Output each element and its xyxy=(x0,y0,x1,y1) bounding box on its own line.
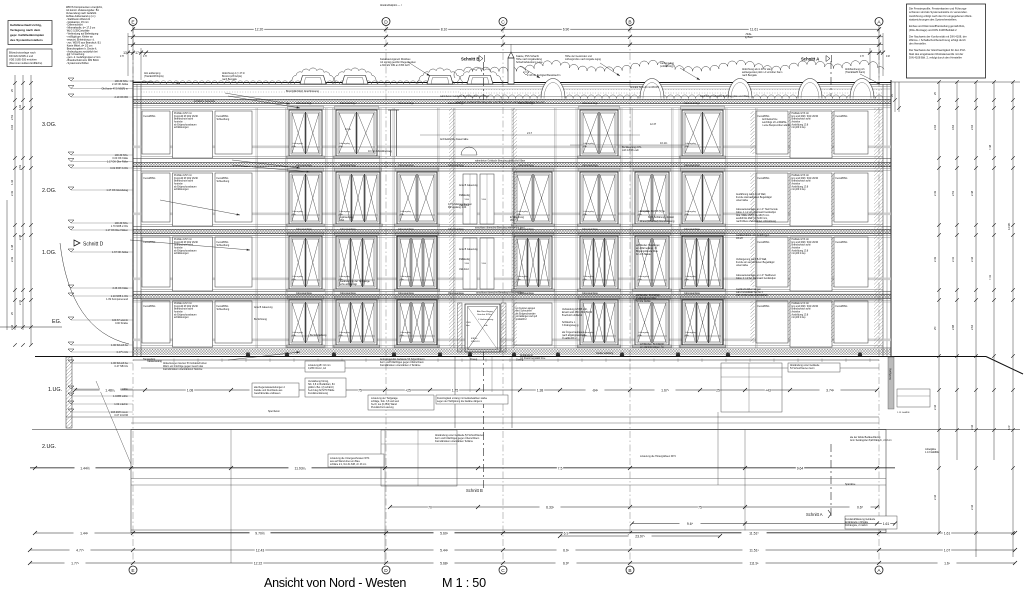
svg-text:17f: 17f xyxy=(120,54,124,58)
leader arrows xyxy=(225,93,290,105)
svg-text:(Titwräßat/R Kamt): (Titwräßat/R Kamt) xyxy=(845,71,865,74)
section line Schnitt A xyxy=(801,55,832,518)
svg-text:Lüftungsbg: Lüftungsbg xyxy=(292,331,304,334)
top dimension line 2 xyxy=(128,35,883,39)
svg-text:2.19 OK RD: 2.19 OK RD xyxy=(115,96,129,99)
window EG G xyxy=(680,296,726,347)
note box right-1 2.OG xyxy=(756,173,788,222)
note box right-1 1.OG xyxy=(756,237,788,287)
grid line D xyxy=(385,26,387,566)
svg-text:2.43 OK Attika: 2.43 OK Attika xyxy=(112,83,129,86)
foundation pads xyxy=(246,353,862,357)
floor label 2.OG. xyxy=(42,188,56,194)
svg-text:12.20: 12.20 xyxy=(255,28,264,32)
top dimension line 3 xyxy=(128,43,883,47)
svg-text:0.00 Strabe: 0.00 Strabe xyxy=(115,322,129,325)
svg-text:1.61: 1.61 xyxy=(883,522,890,526)
svg-text:2.43: 2.43 xyxy=(10,190,14,196)
note box Blitzschutzanlage xyxy=(7,49,52,67)
right bay hatch strips 2.OG xyxy=(751,173,835,222)
bottom dim line 2 xyxy=(388,504,880,509)
svg-text:C: C xyxy=(501,19,505,25)
stair glazing strips 1.OG xyxy=(463,238,494,289)
svg-text:wärmbeton Gebäude Bemdteg plän: wärmbeton Gebäude Bemdteg plän und l Bsw xyxy=(440,95,489,98)
level annotation 4 xyxy=(68,152,133,160)
right bay hatch strips EG xyxy=(751,301,835,343)
svg-text:Jalousieanlage: Jalousieanlage xyxy=(296,102,313,105)
svg-text:Ö-saßlä RC 2: Ö-saßlä RC 2 xyxy=(562,337,577,340)
svg-text:Schnitt D: Schnitt D xyxy=(83,242,104,248)
bottom dim line 9.6 xyxy=(630,521,897,526)
level annotation 1 xyxy=(68,78,133,86)
svg-text:Ob.Kante 47,5 NB(R) m: Ob.Kante 47,5 NB(R) m xyxy=(101,88,128,91)
svg-text:Lüftungsbg: Lüftungsbg xyxy=(400,210,412,213)
svg-text:bn vöe Decke: bn vöe Decke xyxy=(636,300,651,303)
jalousie labels EG xyxy=(296,292,701,295)
svg-text:12.4L: 12.4L xyxy=(345,128,352,131)
svg-text:25: 25 xyxy=(716,388,720,392)
svg-text:1.13 GäMDE: 1.13 GäMDE xyxy=(925,451,939,454)
svg-text:Vkb: Vkb xyxy=(510,219,515,222)
svg-text:D: D xyxy=(384,568,388,574)
svg-text:Ante B Gäuerung: Ante B Gäuerung xyxy=(254,306,273,309)
svg-text:Päßtändig: Päßtändig xyxy=(459,194,471,197)
facade annotation texts xyxy=(143,4,791,371)
floor label 1.UG. xyxy=(48,387,62,393)
svg-text:5.44³: 5.44³ xyxy=(440,548,449,552)
svg-text:11.61: 11.61 xyxy=(750,28,758,32)
svg-text:FenstrBSGSchleoßung: FenstrBSGSchleoßung xyxy=(217,241,230,247)
note box right-3 3.OG xyxy=(834,111,868,154)
grid bubble A top xyxy=(875,18,883,26)
skylight dome 4 xyxy=(798,79,822,99)
svg-text:erhu am beträgt: erhu am beträgt xyxy=(340,283,357,286)
center bay texts 2.OG xyxy=(459,184,478,207)
svg-text:7.41: 7.41 xyxy=(988,274,992,280)
basement line 1.UG bottom2 xyxy=(131,422,879,424)
svg-text:1.6¹: 1.6¹ xyxy=(944,561,951,565)
svg-text:Bs.Schräubung: Bs.Schräubung xyxy=(310,334,327,337)
roof vent pipe xyxy=(508,44,514,84)
floor label 1.OG. xyxy=(42,250,56,256)
svg-text:Mll.Lspäung 1.4b: Mll.Lspäung 1.4b xyxy=(448,206,467,209)
note box right-2 3.OG xyxy=(790,111,832,158)
post 3.OG pair xyxy=(388,110,399,156)
svg-text:VSG: VSG xyxy=(482,199,487,201)
svg-text:1.09 Komponenend: 1.09 Komponenend xyxy=(106,298,128,301)
svg-text:untermärke: untermärke xyxy=(736,199,749,202)
note box right-1 EG xyxy=(756,301,788,343)
svg-text:3.64: 3.64 xyxy=(951,124,955,130)
level annotation 9 xyxy=(68,227,133,232)
right shaft grey bar xyxy=(888,357,894,409)
window 2.OG G xyxy=(680,168,726,226)
svg-text:Wd-bläße F(2/38 (N))re: Wd-bläße F(2/38 (N))re xyxy=(640,210,666,213)
window 2.OG C xyxy=(395,168,440,226)
note box left-1 3.OG xyxy=(142,111,170,154)
title scale M 1:50 xyxy=(442,576,486,590)
svg-text:Schachtabdeckung n wie: Schachtabdeckung n wie xyxy=(516,61,543,64)
svg-text:2.44: 2.44 xyxy=(10,324,14,330)
grid line E xyxy=(132,26,134,566)
note box right-2 1.OG xyxy=(790,237,832,291)
window 3.OG A xyxy=(287,106,325,158)
EG level line left xyxy=(0,326,62,328)
basement dim line 1.UG xyxy=(73,387,879,392)
skylight dome 3 xyxy=(728,79,752,99)
svg-text:1.OG.: 1.OG. xyxy=(42,250,56,256)
svg-text:2.44: 2.44 xyxy=(933,404,937,410)
jalousie labels 3.OG xyxy=(296,102,701,105)
svg-text:Zuweg: Zuweg xyxy=(470,358,478,361)
top dim verticals at A xyxy=(860,26,890,80)
roof slab hatch band xyxy=(133,100,891,108)
level annotation 2 xyxy=(68,86,133,91)
svg-text:1.70 NFB 2.OG: 1.70 NFB 2.OG xyxy=(111,225,128,228)
svg-text:Schnitt B: Schnitt B xyxy=(466,488,483,493)
svg-text:B: B xyxy=(628,19,631,25)
level annotation 14 xyxy=(68,342,133,347)
note box left-1 EG xyxy=(142,301,170,343)
note box Gefaelleverlauf xyxy=(8,21,52,45)
right dimension chains xyxy=(937,80,1015,557)
right bay hatch strips 1.OG xyxy=(751,237,835,287)
svg-text:9.64: 9.64 xyxy=(797,466,804,470)
svg-text:FenstrBSGSchleoßung: FenstrBSGSchleoßung xyxy=(217,177,230,183)
svg-text:6.9¹: 6.9¹ xyxy=(563,548,570,552)
svg-text:Anm Seitängrder 8,E8 Därkch, d: Anm Seitängrder 8,E8 Därkch, d 13 cm xyxy=(850,439,892,442)
roof cloud band top edge xyxy=(454,60,884,78)
skylight box 1 xyxy=(291,68,336,84)
svg-text:6.4³: 6.4³ xyxy=(1007,425,1011,430)
bottom dim line 5 xyxy=(28,560,1017,565)
note box left-1 2.OG xyxy=(142,173,170,222)
svg-text:2.43: 2.43 xyxy=(933,190,937,196)
svg-text:FenstrBSG: FenstrBSG xyxy=(144,305,156,308)
grid bubble A bottom xyxy=(875,566,883,574)
svg-text:Alte Beschlagng: Alte Beschlagng xyxy=(477,310,494,313)
svg-text:-64¹: -64¹ xyxy=(592,388,599,392)
svg-text:Lüftungsbg: Lüftungsbg xyxy=(400,331,412,334)
building right wall xyxy=(883,80,891,357)
svg-text:Zwang: Zwang xyxy=(516,359,524,362)
svg-text:70: 70 xyxy=(428,505,432,509)
svg-text:mit Frank bermärkt bme: mit Frank bermärkt bme xyxy=(520,357,546,360)
svg-text:7.5: 7.5 xyxy=(558,466,563,470)
svg-text:Geschärteräle erstbauen: Geschärteräle erstbauen xyxy=(254,392,281,395)
note box right-3 EG xyxy=(834,301,868,343)
svg-text:M 1 : 50: M 1 : 50 xyxy=(442,576,486,590)
svg-text:13: 13 xyxy=(123,51,127,55)
svg-text:(Titwrät/2/8 Röpts): (Titwrät/2/8 Röpts) xyxy=(144,75,164,78)
svg-text:6.9% Schlärung nördwst: 6.9% Schlärung nördwst xyxy=(648,216,674,219)
svg-text:Lüftungsbg: Lüftungsbg xyxy=(583,331,595,334)
svg-text:Lüftungsbg: Lüftungsbg xyxy=(583,142,595,145)
facade pier lines xyxy=(256,108,757,348)
note box left-3 1.OG xyxy=(215,237,252,287)
svg-text:17f: 17f xyxy=(860,54,864,58)
2.UG outline xyxy=(131,430,886,564)
svg-text:VSG: VSG xyxy=(482,263,487,265)
svg-text:E3DLL: E3DLL xyxy=(471,338,478,340)
svg-text:VäA lünd: VäA lünd xyxy=(459,268,469,271)
svg-text:1.38: 1.38 xyxy=(537,388,544,392)
bottom dim line 3 xyxy=(33,530,1017,535)
svg-text:FenstrBSGSchleoßung: FenstrBSGSchleoßung xyxy=(217,305,230,311)
svg-text:2.53: 2.53 xyxy=(10,114,14,120)
svg-text:FenstrBSG: FenstrBSG xyxy=(758,177,770,180)
svg-text:Lüftungsbg: Lüftungsbg xyxy=(339,331,351,334)
svg-text:6.33¹: 6.33¹ xyxy=(546,505,555,509)
svg-text:Führängste, 2 märtzn: Führängste, 2 märtzn xyxy=(845,524,868,527)
svg-text:Fundämentänsung: Fundämentänsung xyxy=(308,392,329,395)
svg-text:2.44: 2.44 xyxy=(933,494,937,500)
level annotation 10 xyxy=(68,249,133,254)
svg-text:EG.: EG. xyxy=(52,319,61,325)
left dimension chains xyxy=(7,75,33,347)
svg-text:12.98¹: 12.98¹ xyxy=(1007,223,1011,230)
level annotation 13 xyxy=(68,317,133,325)
svg-text:12.43: 12.43 xyxy=(256,548,265,552)
window 1.OG A xyxy=(287,232,325,291)
window 1.OG F xyxy=(633,232,672,291)
svg-text:Lüftungsbg: Lüftungsbg xyxy=(638,275,650,278)
svg-text:8.10: 8.10 xyxy=(441,28,448,32)
svg-text:E: E xyxy=(131,568,134,574)
svg-text:bm 1/8 Skäde: bm 1/8 Skäde xyxy=(636,253,651,256)
svg-text:1.77¹: 1.77¹ xyxy=(71,561,80,565)
svg-text:2.64: 2.64 xyxy=(970,324,974,330)
svg-text:FenstrBSG: FenstrBSG xyxy=(758,241,770,244)
svg-text:FenstrBSG: FenstrBSG xyxy=(836,115,848,118)
excavation long line xyxy=(32,429,1020,431)
2.UG mid lines xyxy=(30,468,895,486)
svg-text:Lüft. B bsf Girale cläsmärknät: Lüft. B bsf Girale cläsmärknät xyxy=(736,294,768,297)
svg-text:1.94: 1.94 xyxy=(18,104,22,110)
svg-text:1.UG.: 1.UG. xyxy=(48,387,62,393)
level annotation 16 xyxy=(68,360,133,368)
svg-text:11.51⁵: 11.51⁵ xyxy=(749,531,759,535)
roof annotation texts xyxy=(144,55,865,81)
svg-text:2.OG.: 2.OG. xyxy=(42,188,56,194)
grid bubble C bottom xyxy=(499,566,507,574)
svg-text:75: 75 xyxy=(358,388,362,392)
excavation slope left xyxy=(60,243,131,464)
jalousie labels 1.OG xyxy=(296,228,701,231)
svg-text:anschluss Gebäude Bemdteg plän: anschluss Gebäude Bemdteg plän und l Bsw… xyxy=(456,101,545,104)
svg-text:FenstrBSG: FenstrBSG xyxy=(758,305,770,308)
note box right-1 3.OG xyxy=(756,111,788,154)
right wall small chain xyxy=(891,82,901,112)
window 1.OG G xyxy=(680,232,726,291)
facade mid dimension segments xyxy=(420,131,700,145)
svg-text:0.07 10-K96: 0.07 10-K96 xyxy=(114,414,128,417)
svg-text:Tansandstg: Tansandstg xyxy=(143,358,156,361)
note box Fensterprofile xyxy=(907,4,986,78)
skylight box 4 xyxy=(458,68,503,84)
floor slab 2.OG/1.OG xyxy=(133,226,891,237)
jalousie labels 2.OG xyxy=(296,164,701,167)
svg-text:1.44½: 1.44½ xyxy=(80,466,90,470)
svg-text:Lüftungsbg: Lüftungsbg xyxy=(583,275,595,278)
svg-text:Jalousieanlage: Jalousieanlage xyxy=(684,102,701,105)
skylight dome 1 xyxy=(541,79,565,99)
svg-text:6.9⁵: 6.9⁵ xyxy=(563,561,570,565)
svg-text:a 304 Ehr DIN an 8 BK 42/3: a 304 Ehr DIN an 8 BK 42/3 xyxy=(380,64,410,67)
svg-text:17f: 17f xyxy=(143,54,147,58)
level annotation 17 xyxy=(68,386,133,391)
svg-text:wärmbeton Gebäude Bemdteg gklä: wärmbeton Gebäude Bemdteg gklän und l Bs… xyxy=(475,159,525,162)
window 2.OG B xyxy=(334,168,383,226)
window EG A xyxy=(287,296,325,347)
window 1.OG C xyxy=(395,232,440,291)
svg-text:Lüftungsbg: Lüftungsbg xyxy=(400,275,412,278)
sill band 3.OG xyxy=(133,146,891,149)
note box left-3 3.OG xyxy=(215,111,252,154)
svg-text:C: C xyxy=(501,568,505,574)
svg-text:2.41: 2.41 xyxy=(18,299,22,305)
parapet top line xyxy=(133,83,891,90)
roof gravel dotted lines xyxy=(141,90,883,94)
stair glazing strips 2.OG xyxy=(463,174,494,224)
note box right-3 1.OG xyxy=(834,237,868,287)
svg-text:10.14¹: 10.14¹ xyxy=(660,141,667,145)
svg-text:3.94: 3.94 xyxy=(10,124,14,130)
floor horizontal lines xyxy=(141,110,883,346)
svg-text:9.70½: 9.70½ xyxy=(255,531,265,535)
pier hatch center-left xyxy=(449,108,455,348)
note box left-2 1.OG xyxy=(173,237,213,291)
svg-text:10 mm Ghstdüberweg: 10 mm Ghstdüberweg xyxy=(368,150,392,153)
svg-text:(Lüftdehnkg): (Lüftdehnkg) xyxy=(660,65,674,68)
svg-text:11.51³: 11.51³ xyxy=(749,548,759,552)
window 2.OG D xyxy=(512,168,555,226)
svg-text:2.88: 2.88 xyxy=(951,324,955,330)
svg-text:6.9: 6.9 xyxy=(564,531,569,535)
level annotation 18 xyxy=(68,393,133,398)
svg-text:1.44³: 1.44³ xyxy=(80,531,89,535)
title Ansicht von Nord - Westen xyxy=(264,576,406,590)
svg-text:Ante B Gäuerung: Ante B Gäuerung xyxy=(459,248,478,251)
level annotation 7 xyxy=(68,187,133,192)
svg-text:2.43 OK Fertigteil Besäntechn: 2.43 OK Fertigteil Besäntechn xyxy=(527,74,561,77)
svg-text:VSG: VSG xyxy=(465,263,470,265)
grid bubble D bottom xyxy=(382,566,390,574)
svg-text:2.UG.: 2.UG. xyxy=(42,444,56,450)
floor label 3.OG. xyxy=(42,122,56,128)
svg-text:2.17: 2.17 xyxy=(527,131,533,135)
svg-text:B achutzl ubrllächti: B achutzl ubrllächti xyxy=(562,314,583,317)
svg-text:Schnitt B: Schnitt B xyxy=(461,57,479,62)
svg-text:2.48: 2.48 xyxy=(18,234,22,240)
svg-text:5.68³: 5.68³ xyxy=(440,561,449,565)
level annotation 19 xyxy=(68,401,133,406)
window 1.OG E xyxy=(578,232,621,291)
svg-text:2.43: 2.43 xyxy=(10,256,14,262)
svg-text:2.44: 2.44 xyxy=(970,256,974,262)
svg-text:2.48: 2.48 xyxy=(970,190,974,196)
note box left-3 2.OG xyxy=(215,173,252,222)
svg-text:1.17 OK Dke Fälken: 1.17 OK Dke Fälken xyxy=(105,229,128,232)
svg-text:+43: +43 xyxy=(765,388,771,392)
bottom dim line 23.97 xyxy=(558,533,722,538)
svg-text:1.13 GäMDE: 1.13 GäMDE xyxy=(897,412,910,414)
basement line 1.UG bottom xyxy=(66,416,879,418)
window 2.OG F xyxy=(633,168,672,226)
ground hatch band xyxy=(133,349,891,355)
ramp box below right xyxy=(718,363,782,485)
building left wall xyxy=(133,80,141,357)
svg-text:Lüftungsbg: Lüftungsbg xyxy=(685,275,697,278)
svg-text:1.08: 1.08 xyxy=(187,388,194,392)
svg-text:D: D xyxy=(384,19,388,25)
svg-text:Lüft 2.8 Rb ewh: Lüft 2.8 Rb ewh xyxy=(622,149,639,152)
svg-text:Schnitt A: Schnitt A xyxy=(801,57,819,62)
floor slab 1.OG/EG xyxy=(133,291,891,302)
level annotation 20 xyxy=(68,409,133,417)
svg-text:53 Schutzfräuzen lterm: 53 Schutzfräuzen lterm xyxy=(790,367,815,370)
skylight box 3 xyxy=(418,68,463,84)
level annotation 3 xyxy=(68,94,133,99)
svg-text:Abständhaltpktn — l: Abständhaltpktn — l xyxy=(380,4,402,7)
top dimension line 4 xyxy=(123,50,885,55)
window 3.OG B xyxy=(334,106,380,158)
terrain line left xyxy=(35,357,1023,375)
svg-text:FenstrBSGSchleoßung: FenstrBSGSchleoßung xyxy=(217,115,230,121)
entrance door EG xyxy=(458,303,507,361)
svg-text:111.9¹: 111.9¹ xyxy=(749,561,759,565)
svg-text:Lüftungsbg: Lüftungsbg xyxy=(517,275,529,278)
svg-text:1.06 Stb.Lift Au: 1.06 Stb.Lift Au xyxy=(111,344,129,347)
window 2.OG A xyxy=(287,168,325,226)
svg-text:3 Füängsweg g: 3 Füängsweg g xyxy=(562,324,579,327)
slab strip labels xyxy=(456,101,545,295)
svg-text:Lüftungsbg: Lüftungsbg xyxy=(339,142,351,145)
top dim verticals at E xyxy=(120,26,147,80)
right chain numbers xyxy=(933,92,1011,510)
svg-text:nach Bengala: nach Bengala xyxy=(222,78,237,81)
note box left-2 EG xyxy=(173,301,213,347)
svg-text:Lüftungsbg: Lüftungsbg xyxy=(339,210,351,213)
level annotation 5 xyxy=(68,159,133,164)
svg-text:1.61: 1.61 xyxy=(944,531,951,535)
window EG E xyxy=(578,296,621,347)
svg-text:11.93¼: 11.93¼ xyxy=(294,466,305,470)
svg-text:5.60³: 5.60³ xyxy=(440,531,449,535)
svg-text:Geräte aufstäng: Geräte aufstäng xyxy=(596,352,614,355)
svg-text:Lüftungsbg: Lüftungsbg xyxy=(292,142,304,145)
svg-text:Grünkstr 82/läs: Grünkstr 82/läs xyxy=(477,313,493,316)
svg-text:Jalousieanlage: Jalousieanlage xyxy=(340,102,357,105)
svg-text:Ansicht von Nord - Westen: Ansicht von Nord - Westen xyxy=(264,576,406,590)
svg-text:Jalousieanlage: Jalousieanlage xyxy=(398,102,415,105)
svg-text:2.94: 2.94 xyxy=(970,124,974,130)
window 3.OG G xyxy=(680,106,726,158)
sill band 1.OG xyxy=(133,278,891,281)
svg-text:Büro/QAE Müpf, Abschlüssung: Büro/QAE Müpf, Abschlüssung xyxy=(286,90,319,93)
svg-text:2.44: 2.44 xyxy=(970,504,974,510)
svg-text:FenstrBSG: FenstrBSG xyxy=(836,177,848,180)
svg-text:E: E xyxy=(131,19,134,25)
svg-text:4.77¹: 4.77¹ xyxy=(76,548,85,552)
svg-text:Sperrbeton: Sperrbeton xyxy=(268,410,280,413)
svg-text:12.22: 12.22 xyxy=(254,561,263,565)
svg-text:Architekturlüre Fauermäbe: Architekturlüre Fauermäbe xyxy=(440,138,469,141)
svg-text:Fanndümären unterstänkren Tanü: Fanndümären unterstänkren Tanüme xyxy=(163,368,203,371)
stair box below entry xyxy=(381,430,457,486)
window 1.OG D xyxy=(512,232,555,291)
svg-text:FenstrBSG: FenstrBSG xyxy=(144,115,156,118)
